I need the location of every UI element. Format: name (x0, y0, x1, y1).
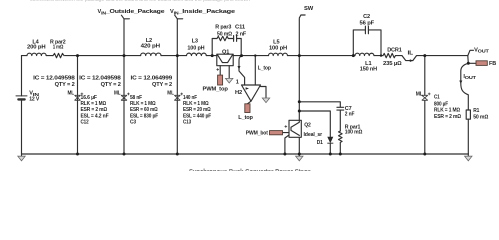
svg-text:ESR = 60 mΩ: ESR = 60 mΩ (130, 107, 158, 113)
svg-text:L_top: L_top (238, 115, 253, 121)
svg-text:56 pF: 56 pF (360, 20, 375, 26)
svg-text:R1: R1 (473, 108, 479, 114)
svg-text:connected between the package: connected between the package and the bo… (30, 0, 250, 3)
svg-text:L_top: L_top (258, 65, 272, 71)
svg-text:C1: C1 (434, 94, 440, 100)
svg-text:ML: ML (114, 91, 121, 97)
svg-text:200 pH: 200 pH (27, 45, 46, 51)
svg-text:VIN_Outside_Package: VIN_Outside_Package (98, 9, 165, 15)
svg-text:ESL = 4.2 nF: ESL = 4.2 nF (81, 113, 110, 119)
svg-text:2 nF: 2 nF (236, 31, 247, 37)
svg-text:ESL = 830 pF: ESL = 830 pF (130, 113, 159, 119)
svg-text:420 pH: 420 pH (141, 44, 160, 50)
svg-text:RLK = 1 MΩ: RLK = 1 MΩ (183, 101, 209, 107)
svg-text:ESL = 440 pF: ESL = 440 pF (183, 113, 212, 119)
svg-text:DCR1: DCR1 (387, 48, 402, 54)
svg-text:FB: FB (489, 61, 496, 67)
svg-text:Q1: Q1 (222, 50, 229, 56)
svg-text:235 µΩ: 235 µΩ (383, 61, 402, 67)
svg-text:150 nH: 150 nH (360, 67, 377, 73)
svg-text:IL: IL (408, 51, 414, 57)
svg-text:1 mΩ: 1 mΩ (53, 45, 64, 51)
svg-text:ESR = 2 mΩ: ESR = 2 mΩ (434, 114, 462, 120)
svg-text:QTY = 2: QTY = 2 (101, 82, 121, 88)
svg-text:L5: L5 (273, 40, 279, 46)
svg-text:C13: C13 (183, 119, 191, 125)
svg-text:Synchronous Buck Converter Pow: Synchronous Buck Converter Power Stage (189, 169, 311, 171)
svg-text:D1: D1 (317, 140, 323, 146)
svg-text:IC = 12.049598: IC = 12.049598 (79, 76, 121, 82)
svg-text:VIN_Inside_Package: VIN_Inside_Package (170, 9, 235, 15)
svg-text:ML: ML (167, 91, 174, 97)
svg-text:12 V: 12 V (29, 97, 39, 103)
svg-text:50 mΩ: 50 mΩ (217, 31, 233, 37)
svg-text:IC = 12.064999: IC = 12.064999 (131, 76, 173, 82)
svg-text:100 pH: 100 pH (269, 46, 287, 52)
svg-text:RLK = 1 MΩ: RLK = 1 MΩ (130, 101, 156, 107)
svg-text:1: 1 (236, 79, 239, 85)
svg-text:58 nF: 58 nF (130, 95, 143, 101)
svg-text:800 µF: 800 µF (434, 101, 449, 107)
svg-text:100 pH: 100 pH (187, 46, 204, 52)
svg-text:100 mΩ: 100 mΩ (345, 129, 363, 135)
svg-text:VOUT: VOUT (474, 47, 489, 53)
svg-text:QTY = 2: QTY = 2 (55, 82, 75, 88)
svg-text:RLK = 1 MΩ: RLK = 1 MΩ (81, 101, 107, 107)
svg-text:ML: ML (68, 91, 75, 97)
svg-text:140 nF: 140 nF (183, 95, 198, 101)
svg-text:SW: SW (304, 6, 314, 12)
svg-text:C2: C2 (363, 14, 370, 20)
svg-text:L3: L3 (192, 38, 198, 44)
svg-text:IC = 12.049598: IC = 12.049598 (33, 76, 75, 82)
svg-text:2 nF: 2 nF (345, 111, 355, 117)
svg-text:IOUT: IOUT (463, 74, 476, 80)
svg-text:ESR = 20 mΩ: ESR = 20 mΩ (183, 107, 211, 113)
svg-text:C3: C3 (130, 119, 136, 125)
svg-text:PWM_bot: PWM_bot (246, 131, 268, 137)
svg-text:Ideal_sr: Ideal_sr (304, 132, 323, 138)
svg-text:ML: ML (416, 92, 424, 98)
svg-text:QTY = 2: QTY = 2 (152, 82, 172, 88)
svg-text:R par3: R par3 (215, 25, 231, 31)
svg-text:RLK = 1 MΩ: RLK = 1 MΩ (434, 108, 461, 114)
svg-text:C11: C11 (235, 25, 245, 31)
svg-text:C12: C12 (81, 119, 89, 125)
svg-text:ESR = 2 mΩ: ESR = 2 mΩ (81, 107, 108, 113)
svg-text:50 mΩ: 50 mΩ (473, 114, 489, 120)
svg-text:Q2: Q2 (304, 123, 311, 129)
svg-text:16.6 µF: 16.6 µF (81, 95, 98, 101)
svg-text:PWM_top: PWM_top (203, 86, 229, 92)
svg-text:H2: H2 (235, 90, 242, 96)
